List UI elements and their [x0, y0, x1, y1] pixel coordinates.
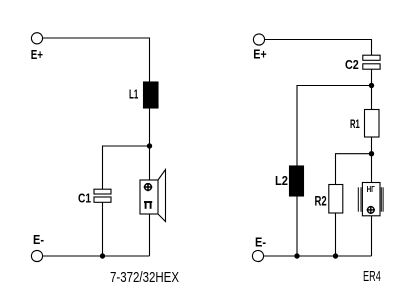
svg-text:E+: E+ [31, 47, 44, 62]
svg-text:R1: R1 [350, 119, 360, 131]
svg-text:R2: R2 [315, 194, 327, 209]
svg-text:E+: E+ [253, 47, 267, 62]
svg-text:НГ: НГ [367, 184, 375, 194]
svg-text:ER4: ER4 [363, 269, 381, 285]
svg-text:C2: C2 [345, 57, 359, 72]
svg-text:E-: E- [255, 235, 266, 250]
svg-text:L1: L1 [129, 87, 138, 102]
svg-text:7-372/32HEX: 7-372/32HEX [110, 270, 179, 286]
svg-text:E-: E- [33, 232, 44, 247]
svg-text:L2: L2 [275, 173, 288, 188]
svg-text:C1: C1 [78, 191, 91, 206]
